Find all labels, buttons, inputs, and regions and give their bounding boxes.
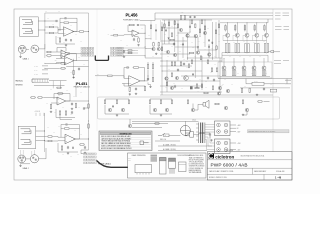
resistor R27 inline [128,52,132,54]
svg-text:IN: IN [108,34,109,36]
resistor field r15 [211,67,213,72]
zener D1 [70,40,72,42]
bank1 junction dot 2 [236,21,239,24]
sheet border frame [14,9,292,180]
stub label right U6 [147,39,151,49]
jack J1 switch contact lower [22,29,33,34]
bank1 emitter leads 3 [246,37,248,53]
connector CN1 row3 [81,52,94,54]
resistor R46 [249,88,251,93]
ground G6 below XLR2 [19,165,21,167]
output transistor Q15 [222,66,226,70]
fan M1 symbol [180,125,190,135]
title row divider 3 [207,173,292,175]
resistor R15 [75,103,77,109]
output transistor Q10 [226,33,230,37]
wire U4 fb [54,94,70,102]
wire U2 fb [57,48,66,53]
resistor R45b [241,88,243,93]
wire AL canal feed 2 [158,150,207,152]
capacitor field c4 [207,76,209,79]
rail x183 [182,37,184,58]
mains switch S1 [158,133,166,135]
bank2 emitter resistor 4 [252,71,254,76]
bank2 rail [220,76,270,78]
notes row rule 1 [100,136,150,138]
bus drop 2 [184,15,185,20]
wire out net [194,133,199,134]
svg-text:+15V: +15V [54,60,57,62]
right aux transistor Qa [152,47,155,50]
connector bar CN3 bracket [32,79,49,82]
wire lower rail U1 [56,36,75,44]
connector CN2 row2 [111,50,124,52]
svg-text:PL451: PL451 [76,82,87,86]
prot2 resistor Rb2 [160,99,162,104]
rail x178 [177,20,179,61]
wire U7 in2 [122,83,129,85]
diode field d5 [208,46,210,48]
rail x167 partial [166,60,168,92]
wire jack J2 rows to bus [36,130,45,132]
wire U4 node to bus [76,100,89,102]
resistor R26 inline [128,50,132,52]
wire feedback loop U1 [60,18,64,29]
wire U6 fb loop [127,25,130,32]
bank1 collector wire 3 [246,23,248,34]
prot4 resistor Rd1 [242,99,244,104]
wire aux to bus [39,44,45,49]
wire mid out 1 [132,123,168,125]
BR2 terminal 4 [224,148,228,152]
bank1 emitter resistor pair 2 [235,44,237,53]
bank1 emitter leads 4 [256,37,258,53]
connector CN1 row4 [81,55,94,57]
connector group CN1 left col [81,47,94,49]
BR1 terminal 2 [224,123,228,127]
ground G14 [135,93,137,95]
prot transistor Qc1 [191,108,194,111]
svg-text:+15 0 -15: +15 0 -15 [35,111,41,113]
resistor field r16 [216,67,218,72]
resistor R21v [61,145,63,151]
wire bottom bar [22,163,30,164]
ground G2 [65,44,67,46]
bank1 collector bar 1 [225,24,227,32]
bank1 emitter resistor pair 5 [264,44,266,53]
legend IC DIP body [135,165,152,173]
wire mid out 2 [132,127,162,129]
ground G5 [71,108,73,110]
ground G9 [137,44,139,46]
resistor field r3 [161,26,163,31]
capacitor field c5 [213,78,215,81]
output bank box [218,62,272,78]
bank1 collector wire 2 [236,23,238,34]
transistor Q4 [194,34,197,37]
bus cap drop [189,16,191,18]
resistor field r4 [191,19,193,24]
wire xlr to node [26,48,29,50]
bank1 collector bar 3 [244,24,246,32]
bank2 collector stub 2 [233,58,235,66]
wire R1R2 to U1 [55,27,61,30]
wire BR2 out + [230,142,236,144]
resistor field r9 [200,55,202,60]
prot transistor Qd1 [245,108,248,111]
resistor R3 feedback [63,22,70,24]
legend IC pins [137,173,149,175]
transistor Q9 [217,92,220,95]
bank rail top y22.8 [220,22,268,24]
svg-text:L1 3uH: L1 3uH [254,81,258,83]
wire reg rail2 [60,116,72,119]
bus component drops [180,15,181,20]
transistor Q20 [218,86,221,89]
jack connector J2 body [18,126,35,149]
svg-text:1 - 46: 1 - 46 [275,177,282,180]
rail x209 [208,44,210,58]
right aux verticals [151,20,161,40]
resistor R50 [154,123,159,125]
notes row rule 4 [100,144,150,146]
opamp U6 [132,30,139,37]
resistor R22 [79,144,85,146]
svg-text:- 15V: - 15V [237,150,240,152]
wire to U5 [53,136,65,139]
BR1 terminal 1 [217,123,221,127]
inner margin line right [272,9,274,152]
bus resistor mid2 [88,123,90,129]
opamp U5 [65,134,75,144]
bank1 emitter leads 5 [266,37,268,53]
h wire y81 [167,80,220,82]
svg-text:DO SER SUBSTITUIDOS: DO SER SUBSTITUIDOS [189,164,204,166]
resistor R52 input [107,75,113,77]
wire bottom link [26,158,31,160]
wire bus to R18 [45,136,47,138]
rail x220 [219,58,221,92]
resistor R19 [47,140,53,142]
h wire y37 [187,36,198,38]
wire CN3 to right [49,80,67,82]
capacitor C2 feedback [64,17,67,19]
resistor field r22 [204,25,206,30]
wire C1 link [45,20,55,22]
transistor Q23 [179,28,182,31]
wire bank1 out [268,51,271,53]
wire low rail c2 [58,143,78,152]
vertical bus left section [88,13,90,150]
transistor Q27 [173,53,176,56]
section fold line [96,9,98,131]
capacitor C11 [133,38,135,41]
wire top-left block top link [45,12,89,14]
bus stub labels right lower [275,27,289,30]
bank link vertical left [221,53,223,62]
rail x174.8 [174,20,176,52]
wire U6 output node [144,33,146,58]
prot4 resistor Rd2 [257,101,262,103]
transistor Q26 [166,50,169,53]
resistor R4 [79,31,85,33]
ground G13 [129,93,131,95]
h wire y20 [162,19,212,21]
wire CA row3 [42,73,48,75]
rail x190 [189,20,191,33]
junction dots field 2 [177,32,180,35]
capacitor C1 [55,20,58,22]
wire prot4 link [243,112,247,115]
wire lower net [240,87,290,89]
svg-text:PWP 6000 / 4AB: PWP 6000 / 4AB [211,163,248,168]
resistor R13 [50,104,52,110]
junction dots field [161,60,164,63]
bottom rail y95 [160,94,273,96]
ground G11 [256,94,258,96]
wire XLR2 pin stubs up [20,150,34,156]
connector CN2 wires into board [117,48,146,56]
title row divider 1 [207,159,292,161]
wire rail drop to L1 [246,79,252,84]
notes row rule 3 [100,141,150,143]
transistor Q24 [203,31,206,34]
bank1 bottom rail [222,52,268,54]
wire chain to U4 [43,98,57,100]
capacitor field c3 [183,62,185,65]
transistor Q3 [186,34,189,37]
transformer T1 right winding [204,123,206,144]
prot2 ground [160,114,162,116]
wire prot out down [129,119,131,124]
bus cap drop2 [194,16,196,18]
output transistor Q18 [252,66,256,70]
prot1 resistor Ra3 [128,99,130,104]
ground G8 [84,152,86,154]
right aux circuit resistors [153,42,155,47]
psu top wire [132,120,199,122]
wire U6 node stub [145,38,147,40]
XLR connector X2 shell [18,155,26,163]
resistor R53 fb [133,67,140,69]
resistor field r10 [171,61,173,66]
capacitor C15 [174,85,176,88]
wire U7 fb loop [124,68,126,79]
wire fan top [184,121,186,125]
resistor field r19 [201,83,203,88]
wire U6 in2 [128,31,132,33]
damper resistor R46c [270,89,277,92]
transistor Qm1 [128,124,131,127]
notes row rule 5 [100,146,150,148]
wire out drop [209,136,211,138]
ground G4 [50,111,52,113]
fuse F1 [164,134,169,137]
transistor Q21 [226,89,229,92]
prot2 resistor Rb1 [149,99,151,104]
notes table header band [100,132,150,135]
bus junction dots [87,30,90,33]
title row3 divider vertical [252,168,254,174]
h wire y66 [160,65,192,67]
output terminal stubs [285,80,291,84]
diode field d4 [212,42,214,44]
wire U7 lower rail [124,84,145,87]
resistor R25 [138,37,140,43]
wire R4 to bus [84,31,88,33]
BR2 terminal 2 [224,141,228,145]
wire jack J1 row2 to bus [38,29,45,31]
wire U7 right rails [147,62,149,64]
bank1 collector bar 5 [263,24,265,32]
ribbon cable U loop [95,56,108,61]
resistor R24 fb [129,24,136,26]
wire jack J1 row1 to bus [38,20,45,22]
connector P2 aux circle [30,155,38,163]
transistor Q25 [175,76,178,79]
XLR X1 pins [20,47,22,49]
prot4 label stub [264,101,270,103]
wire bus to CN4 [81,150,89,154]
connector CN4 row2 [84,156,97,158]
resistor field r13 [191,59,193,64]
resistor R23 input [113,34,118,36]
resistor R18 [47,136,53,138]
h wire y28 [162,27,178,29]
resistor field r25 [194,23,196,28]
bridge rectifier BR1 body [215,121,231,136]
thermal switch TH1 [140,141,149,145]
bank1 collector bar 4 [254,24,256,32]
dark diode blob [190,86,193,89]
wire U7 right link [148,83,151,86]
resistor R10v [73,70,75,76]
capacitor C7 fb [65,123,68,125]
jack J2 switch contact upper [21,129,32,134]
wire reg rail [56,109,75,118]
transformer T1 left winding [198,123,200,144]
notes table outer box [99,131,152,151]
capacitor C18 [135,87,137,90]
output transistor Q14 [265,33,269,37]
svg-text:+ 15V: + 15V [237,143,241,145]
output inductor L1 [252,82,264,85]
capacitor field c9 [182,43,184,45]
h wire y54 [160,53,190,55]
wire CA row1 [42,65,48,67]
prot transistor Qa2 [121,108,124,111]
bus resistor mid [88,103,90,109]
wire XLR stub [20,53,22,55]
junction dot U5 out [87,138,90,141]
wire U7 out [140,75,148,81]
resistor R2 [48,32,54,34]
wire U5 fb loop [61,125,65,138]
prot transistor Qb1 [153,108,156,111]
wire bus1 entry [140,13,155,21]
wire BR1 mid tap [230,127,236,129]
bank1 junction dot 4 [255,21,258,24]
resistor R9a [60,63,66,65]
rail x212.3 [211,22,213,60]
h wire y58 [187,57,222,59]
bank1 collector wire 4 [256,23,258,34]
title row divider 2 [207,167,292,169]
bank1 base stubs [223,35,264,40]
right aux transistor Qb [157,47,160,50]
svg-text:- 90V: - 90V [237,132,240,134]
jack J2 switch contact lower [21,139,32,144]
legend TO-220 tab [169,158,176,161]
wire bank rail up [267,19,269,23]
capacitor field c7 [208,39,210,41]
capacitor C19 [147,77,149,80]
opamp U7 [129,76,141,87]
bank2 emitter resistor 3 [242,71,244,76]
resistor field r31 [218,23,220,28]
connector CN3 pin ticks [35,79,48,82]
resistor field r14 [207,59,209,64]
wire U1 inputs [58,29,64,31]
resistor field r27 [188,63,190,68]
wire prot3 [192,104,194,109]
junction dot U7 out [143,80,146,83]
resistor field r6 [161,46,163,51]
bank1 collector wire 5 [266,23,268,34]
diode field d3 [189,26,191,28]
transformer winding rungs [196,124,199,140]
output transistor Q16 [232,66,236,70]
opamp U1 [64,27,74,37]
BR1 terminal 3 [217,130,221,134]
bank1 emitter resistor pair 3 [245,44,247,53]
resistor field r8 [216,45,218,50]
capacitor C4 [78,67,80,70]
wire U5 out [74,138,89,140]
wire prot1 rails [105,105,129,114]
legend TO-220 body [169,161,176,168]
component legend box [128,153,207,178]
opamp U7 input wire [95,75,107,77]
resistor field r29 [171,32,173,37]
output transistor Q13 [255,33,259,37]
resistor R8 fb [64,53,71,55]
resistor field r30 [199,28,201,33]
bank1 junction dot 3 [246,21,249,24]
bank1 emitter leads 2 [236,37,238,53]
wire CN3 verticals [52,81,54,89]
note strip [248,130,290,133]
bank1 base link wire [223,40,267,42]
transformer T1 core bars [201,123,203,144]
output transistor Q17 [242,66,246,70]
ground G3 [72,76,74,78]
bank2 emitter resistor 1 [222,71,224,76]
resistor field r1 [168,21,170,26]
right aux cap [155,29,157,31]
title row4 divider vertical [263,174,265,180]
wire mains to fan [169,135,180,137]
XLR connector X1 shell [18,45,26,53]
bank1 output component [271,51,274,53]
BR2 terminal 3 [217,148,221,152]
notes row rule 2 [100,139,150,141]
connector P1 aux circle [31,45,39,53]
svg-text:PL456: PL456 [125,12,138,17]
wire to U6 [118,34,132,36]
h wire y50 [198,49,216,51]
capacitor C17 fb [126,66,130,68]
